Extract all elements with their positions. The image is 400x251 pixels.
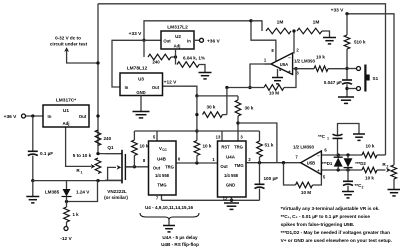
svg-text:12: 12 [223, 196, 228, 201]
wire 240 node to Q1 drain [96, 152, 121, 155]
wire 10k1 top corner [133, 131, 135, 140]
notes [281, 206, 392, 243]
potentiometer R2 [382, 162, 396, 179]
svg-text:U1: U1 [63, 108, 69, 114]
svg-text:U4A - 5 µs delay: U4A - 5 µs delay [162, 235, 198, 240]
resistor 1M first [266, 20, 291, 34]
ground (U3) [133, 96, 150, 118]
svg-text:3: 3 [240, 135, 243, 140]
ground (R2) [388, 190, 400, 196]
resistor 6.04k 1% [177, 56, 205, 68]
wire LM385 anode loop [65, 181, 98, 204]
wire U4A pin12 stub [231, 197, 233, 200]
svg-text:Q1: Q1 [107, 145, 114, 150]
svg-text:2: 2 [248, 157, 251, 162]
svg-text:U4B - RS flip-flop: U4B - RS flip-flop [161, 242, 199, 247]
svg-text:1: 1 [212, 157, 215, 162]
svg-text:6: 6 [178, 157, 181, 162]
wire C1 stem [337, 138, 339, 155]
label 0-32V dc to circuit under test [50, 36, 88, 47]
wire cap to ground line [31, 156, 34, 183]
wire S1 bottom [347, 88, 357, 90]
svg-text:2: 2 [296, 48, 299, 53]
svg-text:TMG: TMG [157, 182, 166, 187]
svg-text:TRG: TRG [234, 144, 243, 149]
wire C2 stem [347, 170, 349, 181]
svg-text:+: + [288, 69, 291, 74]
svg-text:6: 6 [324, 148, 327, 153]
MOSFET Q1 VN2222L [105, 145, 134, 184]
resistor 30k (TRG) [235, 96, 254, 116]
label +12 V [164, 80, 177, 86]
svg-text:+: + [317, 168, 320, 173]
svg-text:1M: 1M [277, 20, 284, 26]
wire trigger line to 30k2 [197, 95, 238, 97]
svg-text:−: − [317, 154, 320, 159]
svg-text:S1: S1 [373, 76, 379, 81]
wire LM385 / R1-bottom line [33, 179, 122, 182]
wire ground bus bottom [162, 199, 260, 202]
svg-text:13: 13 [216, 135, 221, 140]
diode D1 [322, 155, 343, 170]
wire 51k top corner [259, 131, 261, 141]
ground (U4 GND) [224, 203, 239, 209]
wire setpoint 10k to R2 wiper [377, 169, 386, 171]
wire U2 Out stub [144, 39, 161, 41]
reference diode LM385 1.24V [45, 181, 90, 202]
svg-text:30 k: 30 k [245, 106, 254, 111]
svg-text:5 to 10 k: 5 to 10 k [73, 153, 92, 158]
svg-text:10 M: 10 M [301, 190, 311, 195]
regulator U2 LM317LZ [161, 25, 194, 50]
terminal -12 V [60, 227, 72, 243]
wire 10M lead to vertical [284, 67, 298, 87]
svg-text:circuit under test: circuit under test [50, 41, 88, 46]
wire +12V vertical feed [195, 96, 198, 141]
label +33 V (right) [331, 8, 344, 14]
ground (U5A pin4) [272, 69, 283, 84]
wire input cap branch [32, 116, 34, 151]
svg-text:Out: Out [79, 114, 87, 119]
op-amp U5A LM393 [264, 48, 316, 76]
wire 510k stem top [346, 14, 348, 35]
wire U4B out to gate [125, 165, 149, 168]
terminal +36 V (U2 input) [194, 38, 220, 44]
svg-text:+36 V: +36 V [207, 38, 220, 44]
svg-text:U4A: U4A [226, 154, 236, 159]
resistor 1k [64, 201, 79, 226]
svg-text:***D1: ***D1 [322, 161, 333, 166]
svg-text:GND: GND [226, 183, 235, 188]
svg-text:240: 240 [104, 136, 112, 141]
svg-text:10 k: 10 k [365, 176, 374, 181]
ground (6.04k) [199, 65, 212, 79]
wire C2 to ground [347, 186, 349, 192]
svg-text:+36 V: +36 V [4, 114, 17, 120]
svg-text:1: 1 [81, 171, 83, 175]
resistor 240 (U2) [144, 40, 177, 64]
svg-text:10 k: 10 k [366, 144, 375, 149]
resistor 240 (U1) [95, 130, 111, 146]
svg-text:0-32 V dc to: 0-32 V dc to [55, 36, 81, 41]
wire U5B pin5 line [321, 168, 362, 171]
svg-text:510 k: 510 k [354, 40, 366, 45]
regulator U3 LM78L12 [120, 66, 163, 96]
svg-text:Out: Out [220, 164, 228, 169]
svg-text:(or similar): (or similar) [104, 195, 128, 200]
resistor 10k (+12V to TRG line) [194, 141, 212, 156]
svg-text:1: 1 [327, 136, 329, 140]
resistor 1M second [297, 20, 326, 34]
svg-text:+33 V: +33 V [129, 31, 142, 37]
svg-text:240: 240 [152, 60, 160, 65]
label U4 unused pins [140, 205, 199, 232]
wire 30k2 bottom to TRG [236, 116, 239, 141]
resistor 10k (U5A pin3 to timing node) [314, 55, 328, 72]
svg-text:6.04 k, 1%: 6.04 k, 1% [183, 56, 205, 61]
op-amp U5B LM393 [293, 145, 327, 180]
wire U5A output [248, 64, 271, 89]
ground (1M divider) [323, 38, 336, 44]
svg-text:−: − [288, 56, 291, 61]
svg-text:LM317L2: LM317L2 [167, 25, 188, 31]
wire 51k bottom [259, 157, 261, 163]
capacitor 0.047uF [324, 80, 352, 85]
svg-text:U4B: U4B [157, 156, 166, 161]
wire U4B pin5 stub [156, 131, 158, 141]
capacitor C2 [343, 181, 364, 189]
timer U4B 1/4 558 [143, 135, 181, 201]
ground (input cap) [26, 197, 39, 203]
svg-text:+33 V: +33 V [331, 8, 344, 14]
svg-text:In: In [125, 85, 129, 90]
wire tap to circuit-under-test arrow [67, 49, 100, 65]
svg-text:10 k: 10 k [203, 144, 212, 149]
svg-text:5: 5 [323, 175, 326, 180]
svg-text:VN2222L: VN2222L [107, 189, 127, 194]
wire 1M2 right to ground [326, 31, 330, 37]
svg-text:Adj: Adj [62, 121, 69, 126]
svg-text:8: 8 [143, 158, 146, 163]
svg-text:Out: Out [163, 39, 171, 44]
wire +12V from U3 [163, 86, 199, 97]
regulator U1 LM317C [43, 98, 89, 128]
svg-text:Out: Out [152, 85, 160, 90]
potentiometer R1 5-to-10k [73, 153, 101, 175]
svg-text:***D2: ***D2 [355, 161, 366, 166]
svg-text:RST: RST [221, 144, 230, 149]
svg-text:2: 2 [387, 165, 389, 169]
wire ground stem left [32, 181, 34, 197]
svg-text:GND: GND [136, 90, 145, 95]
svg-text:0.1 µF: 0.1 µF [40, 151, 53, 156]
resistor 10k (setpoint) [362, 167, 377, 180]
ground (C1) [353, 134, 365, 140]
svg-text:10 k: 10 k [316, 55, 325, 60]
wire 100pF stem [259, 163, 261, 185]
wire out node down to 30k pullup [226, 88, 228, 115]
svg-text:5: 5 [153, 135, 156, 140]
diode D2 [344, 155, 367, 170]
svg-text:spikes from false-triggering U: spikes from false-triggering U5B. [281, 222, 355, 227]
resistor 510k [344, 35, 366, 49]
svg-text:1M: 1M [313, 20, 320, 26]
label +33 V (U2 output) [129, 31, 142, 37]
svg-text:1.24 V: 1.24 V [76, 190, 90, 195]
capacitor 0.1uF [28, 151, 54, 156]
resistor 30k pullup [203, 105, 227, 118]
svg-text:51 k: 51 k [265, 143, 274, 148]
svg-text:+12 V: +12 V [164, 80, 177, 86]
wire U4B pin7 stub [161, 195, 163, 200]
wire 10k2 bottom [196, 156, 198, 164]
svg-text:1 k: 1 k [73, 212, 80, 217]
svg-text:LM317C*: LM317C* [56, 98, 76, 104]
resistor 10M (U5A feedback) [264, 85, 284, 96]
resistor 10k (U4B out) [132, 140, 149, 156]
svg-text:8: 8 [271, 48, 274, 53]
svg-text:TMG: TMG [234, 163, 243, 168]
wire +33V step to 1M divider [251, 21, 262, 31]
wire cap to ground [345, 84, 348, 97]
label VN2222L (or similar) [104, 189, 128, 200]
wire U1 Adj to R1 wiper [66, 127, 92, 166]
svg-text:1/4 558: 1/4 558 [155, 173, 170, 178]
svg-text:Adj: Adj [174, 44, 181, 49]
wire +33V feedback rail over U2 [142, 21, 251, 42]
wire U4B TRG to U4A Out [176, 161, 218, 164]
wire +36V input to U1 [26, 114, 44, 117]
svg-text:7: 7 [295, 155, 298, 160]
svg-text:**C: **C [318, 134, 326, 139]
ground (C2) [342, 192, 354, 198]
svg-text:3: 3 [296, 71, 299, 76]
wire C1 to ground bracket [338, 124, 360, 136]
ground (0.047uF) [338, 97, 354, 103]
resistor 51k [257, 141, 274, 157]
svg-text:In: In [48, 114, 52, 119]
svg-text:Out: Out [153, 165, 161, 170]
svg-text:U3: U3 [138, 77, 144, 82]
capacitor C1 [318, 134, 342, 140]
svg-text:1/2 LM393: 1/2 LM393 [293, 145, 315, 150]
wire U4A TMG to U5B out [246, 161, 301, 164]
wire +33V node down to comparator supply [249, 19, 276, 61]
svg-text:-12 V: -12 V [60, 236, 72, 242]
wire R2 bottom to ground [393, 179, 395, 190]
pushbutton S1 [357, 65, 379, 92]
wire U5A out/10M line [225, 86, 264, 89]
svg-text:CC: CC [162, 148, 167, 152]
wire +12V logic rail y=131 [134, 130, 259, 132]
resistor 10k (sense) [362, 144, 377, 158]
wire +33V right rail [345, 12, 394, 165]
svg-text:V+ or GND are used elsewhere o: V+ or GND are used elsewhere on your tes… [281, 238, 392, 243]
wire 10M2 feedback [284, 163, 296, 185]
wire sense 10k to top rail [377, 154, 386, 156]
wire 0-32V output rail (U1 Out vertical x=98) [97, 4, 99, 154]
wire U2 Adj [175, 49, 177, 65]
svg-text:U4 - 4,9,10,11,14,15,16: U4 - 4,9,10,11,14,15,16 [145, 205, 193, 210]
wire divider mid to U5A pin2 [292, 29, 295, 53]
svg-text:**C₁, C₂ - 0.01 µF to 0.1 µF p: **C₁, C₂ - 0.01 µF to 0.1 µF prevent noi… [281, 214, 371, 219]
resistor 10M (U5B feedback) [296, 182, 313, 195]
wire 10k1 bottom [133, 156, 135, 167]
timer U4A 1/4 558 [212, 135, 251, 202]
wire 100pF bottom [259, 189, 261, 201]
wire 510k to cap node [345, 49, 348, 80]
svg-text:30 k: 30 k [207, 105, 216, 110]
terminal +36 V input (left) [4, 114, 26, 120]
wire U5B pin6 line [321, 153, 362, 156]
svg-text:100 pF: 100 pF [264, 176, 279, 181]
wire 10M2 to pin5 line [313, 170, 322, 185]
wire node to S1 top [347, 68, 357, 70]
capacitor 100pF [255, 176, 279, 189]
svg-text:LM78L12: LM78L12 [127, 66, 148, 72]
svg-text:1: 1 [264, 58, 267, 63]
svg-text:LM385: LM385 [45, 190, 60, 195]
svg-text:U2: U2 [175, 34, 181, 39]
wire +33V to U3 input [112, 40, 144, 87]
svg-text:10 M: 10 M [269, 91, 279, 96]
svg-text:***D1,D2 - May be needed if vo: ***D1,D2 - May be needed if voltages gre… [281, 230, 391, 235]
arrow to circuit under test [64, 47, 69, 52]
node U1 output [96, 114, 99, 117]
wire U4A pin13 stub [221, 131, 223, 141]
label U4A U4B functions [161, 235, 199, 247]
wire top rail from output to sense divider [98, 4, 386, 155]
svg-text:*Virtually any 3-terminal adju: *Virtually any 3-terminal adjustable VR … [281, 206, 380, 211]
svg-text:1/2 LM393: 1/2 LM393 [294, 59, 316, 64]
svg-text:1/4 558: 1/4 558 [224, 173, 239, 178]
wire U5A pin3 line [293, 68, 347, 70]
svg-text:7: 7 [156, 196, 159, 201]
svg-text:0.047 µF: 0.047 µF [324, 80, 342, 85]
wire TMG loop [238, 123, 277, 163]
svg-text:U5B: U5B [307, 160, 315, 165]
svg-text:TRG: TRG [165, 164, 174, 169]
svg-text:In: In [187, 39, 191, 44]
svg-text:10 k: 10 k [140, 144, 149, 149]
svg-text:2: 2 [362, 185, 364, 189]
